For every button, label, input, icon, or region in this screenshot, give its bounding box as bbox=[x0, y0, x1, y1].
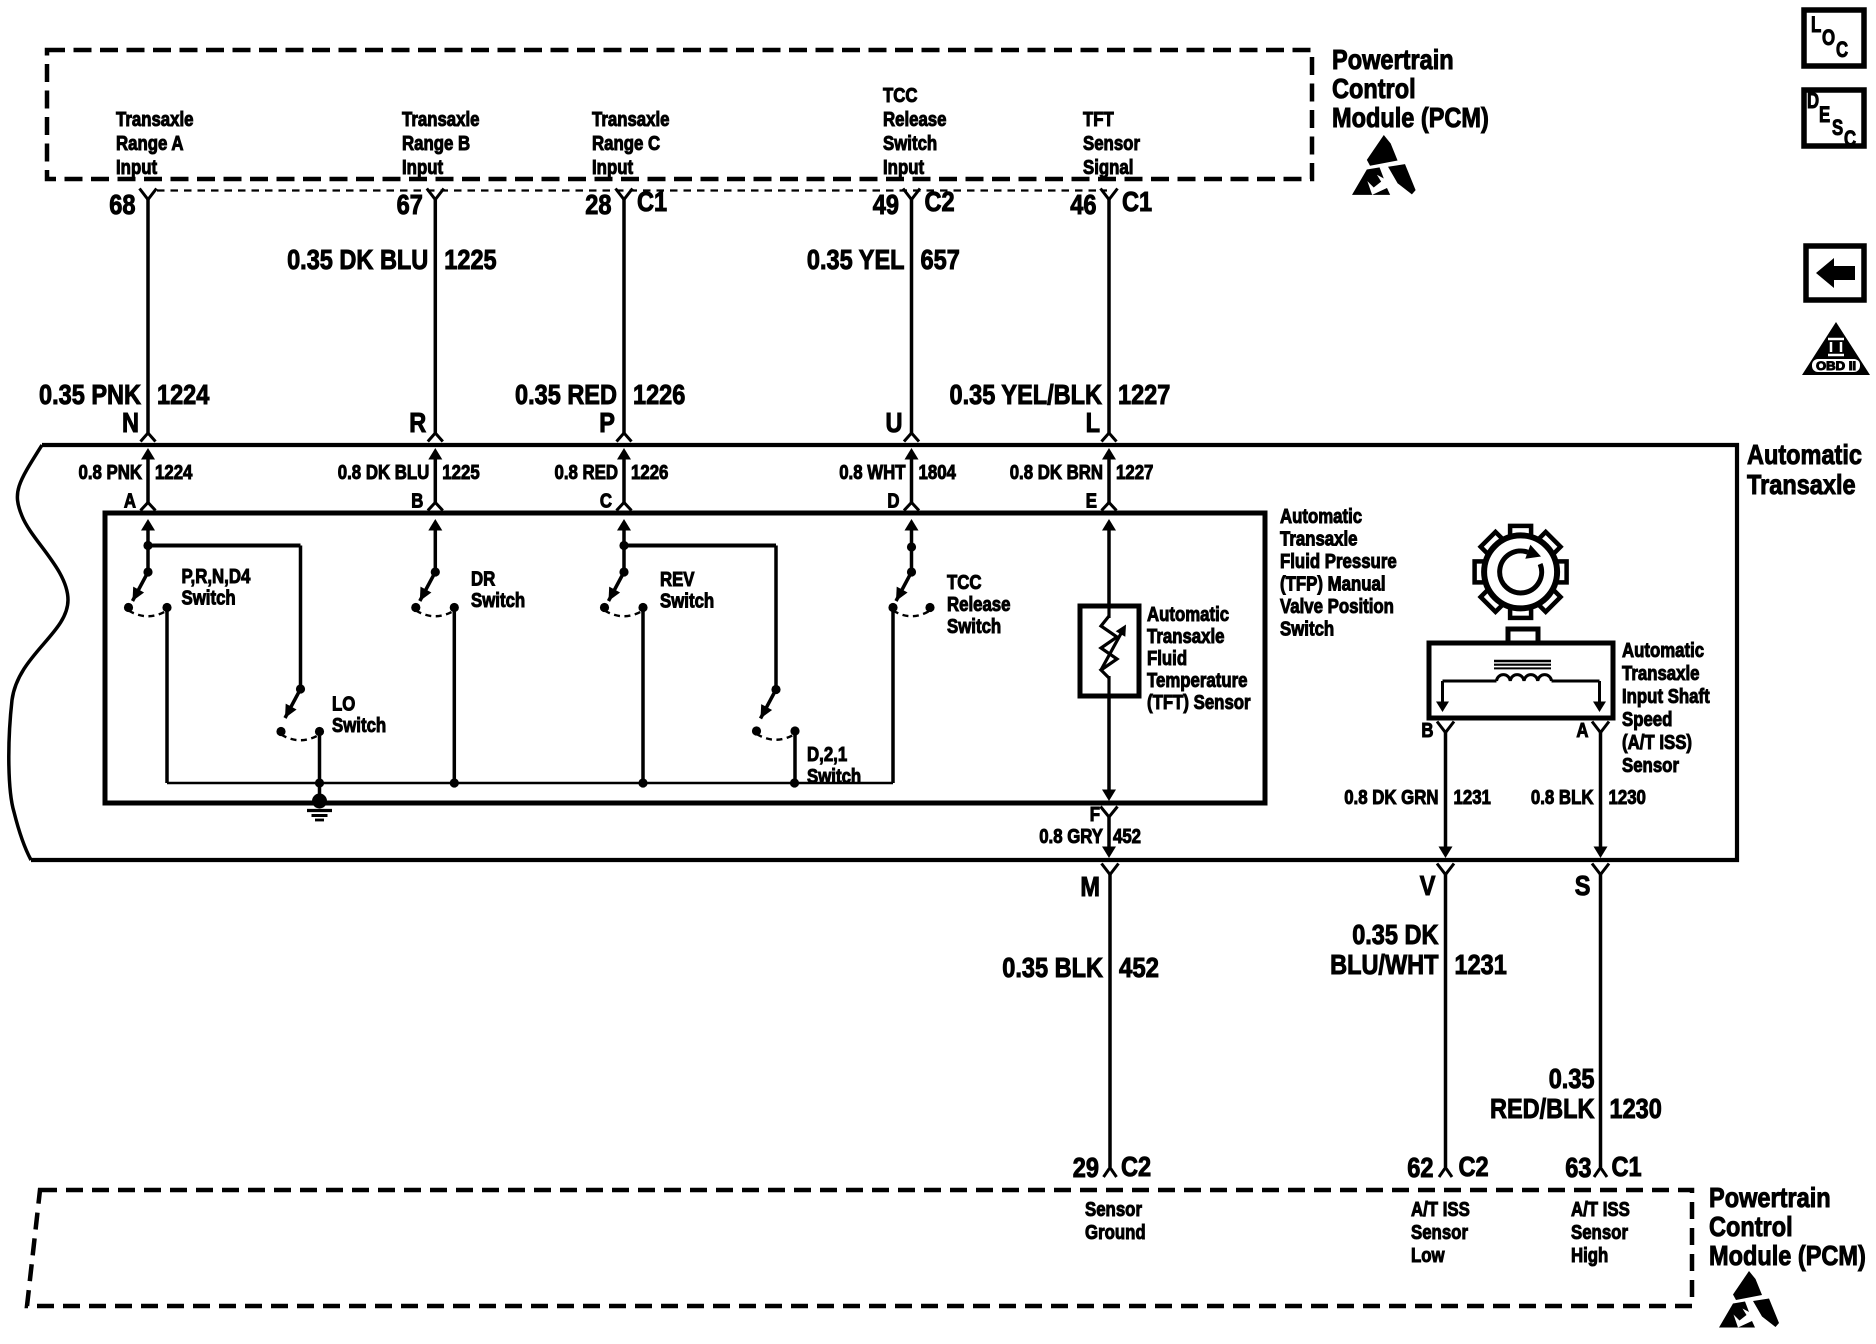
wire switch-common bus bbox=[167, 778, 893, 787]
label Transaxle Range C Input bbox=[592, 109, 670, 179]
svg-text:1224: 1224 bbox=[155, 462, 193, 484]
svg-text:Module (PCM): Module (PCM) bbox=[1332, 102, 1489, 133]
svg-text:C1: C1 bbox=[1612, 1151, 1642, 1182]
svg-text:(TFT) Sensor: (TFT) Sensor bbox=[1147, 692, 1251, 714]
svg-text:(A/T ISS): (A/T ISS) bbox=[1622, 732, 1692, 754]
svg-text:Ground: Ground bbox=[1085, 1222, 1146, 1244]
svg-text:28: 28 bbox=[585, 189, 611, 220]
svg-text:A: A bbox=[1576, 720, 1588, 742]
svg-text:Input: Input bbox=[402, 157, 443, 179]
svg-text:R: R bbox=[409, 407, 426, 438]
svg-text:TFT: TFT bbox=[1083, 109, 1114, 131]
wire 1231 0.35 DK BLU/WHT terminal-V to pin 62 bbox=[1330, 864, 1507, 1184]
svg-text:E: E bbox=[1819, 102, 1830, 127]
label A/T ISS Sensor High bbox=[1571, 1199, 1630, 1267]
svg-text:0.35: 0.35 bbox=[1549, 1063, 1595, 1094]
wire 1224 0.35 PNK pin-to-terminal-N bbox=[39, 200, 210, 442]
svg-text:Sensor: Sensor bbox=[1411, 1222, 1468, 1244]
svg-text:Sensor: Sensor bbox=[1083, 133, 1140, 155]
svg-text:Low: Low bbox=[1411, 1245, 1445, 1267]
PCM connector C1/C2 dashed line bbox=[157, 189, 1107, 191]
svg-text:1231: 1231 bbox=[1455, 949, 1507, 980]
wire 657 0.35 YEL pin-to-terminal-U bbox=[807, 200, 960, 442]
svg-text:A/T ISS: A/T ISS bbox=[1411, 1199, 1470, 1221]
svg-text:Input: Input bbox=[592, 157, 633, 179]
label Powertrain Control Module (PCM) top bbox=[1332, 44, 1489, 133]
svg-text:Sensor: Sensor bbox=[1085, 1199, 1142, 1221]
label Powertrain Control Module (PCM) bottom bbox=[1709, 1182, 1866, 1271]
svg-text:Release: Release bbox=[947, 594, 1011, 616]
ESD warning symbol (bottom PCM) bbox=[1719, 1271, 1779, 1328]
icon back-arrow box bbox=[1806, 246, 1864, 300]
icon DESC box bbox=[1804, 88, 1864, 151]
svg-text:LO: LO bbox=[332, 694, 355, 716]
svg-text:V: V bbox=[1420, 870, 1436, 901]
svg-text:A: A bbox=[124, 491, 136, 513]
switch DR (terminal B) bbox=[411, 519, 525, 783]
svg-text:M: M bbox=[1080, 871, 1100, 902]
wire 452 0.8 GRY terminal-F bbox=[1039, 696, 1141, 858]
svg-text:Automatic: Automatic bbox=[1280, 506, 1362, 528]
svg-text:0.8 BLK: 0.8 BLK bbox=[1531, 787, 1594, 809]
svg-text:RED/BLK: RED/BLK bbox=[1490, 1093, 1595, 1124]
svg-text:B: B bbox=[411, 491, 423, 513]
svg-text:P: P bbox=[599, 407, 615, 438]
svg-text:67: 67 bbox=[397, 189, 423, 220]
label TFT Sensor Signal bbox=[1083, 109, 1140, 179]
wire 1231 0.8 DK GRN ISS-B bbox=[1344, 720, 1491, 858]
pin 68 (PCM top) bbox=[109, 189, 156, 221]
svg-text:Switch: Switch bbox=[332, 715, 386, 737]
svg-text:C: C bbox=[1844, 126, 1856, 151]
svg-text:F: F bbox=[1090, 804, 1100, 826]
svg-text:Range A: Range A bbox=[116, 133, 184, 155]
svg-text:Input: Input bbox=[116, 157, 157, 179]
wire 1224 0.8 PNK terminal-A bbox=[79, 448, 194, 513]
label Automatic Transaxle Fluid Pressure (TFP) Manual Valve Position Switch bbox=[1280, 506, 1397, 641]
wire terminal-E to TFT sensor bbox=[1102, 519, 1116, 606]
svg-text:63: 63 bbox=[1565, 1152, 1591, 1183]
icon OBD II triangle bbox=[1802, 322, 1870, 375]
svg-text:1226: 1226 bbox=[633, 379, 685, 410]
svg-text:C: C bbox=[600, 491, 612, 513]
svg-text:Signal: Signal bbox=[1083, 157, 1133, 179]
svg-text:Sensor: Sensor bbox=[1622, 755, 1679, 777]
svg-text:0.8 RED: 0.8 RED bbox=[555, 462, 619, 484]
svg-text:C1: C1 bbox=[1122, 186, 1152, 217]
svg-text:OBD II: OBD II bbox=[1816, 359, 1856, 373]
svg-text:C2: C2 bbox=[925, 186, 955, 217]
label Automatic Transaxle bbox=[1747, 439, 1862, 500]
svg-text:68: 68 bbox=[109, 189, 135, 220]
svg-text:Switch: Switch bbox=[947, 616, 1001, 638]
svg-text:C2: C2 bbox=[1459, 1151, 1489, 1182]
TFT sensor (thermistor) bbox=[1080, 606, 1139, 696]
svg-text:Switch: Switch bbox=[471, 590, 525, 612]
wire link C-to-D21 bbox=[624, 546, 776, 690]
svg-text:Powertrain: Powertrain bbox=[1332, 44, 1454, 75]
svg-text:1225: 1225 bbox=[442, 462, 479, 484]
svg-text:Transaxle: Transaxle bbox=[402, 109, 480, 131]
svg-text:N: N bbox=[122, 407, 139, 438]
svg-text:49: 49 bbox=[873, 189, 899, 220]
svg-text:Module (PCM): Module (PCM) bbox=[1709, 1240, 1866, 1271]
svg-text:Automatic: Automatic bbox=[1622, 640, 1704, 662]
svg-text:Switch: Switch bbox=[883, 133, 937, 155]
svg-text:Switch: Switch bbox=[1280, 619, 1334, 641]
wire 1804 0.8 WHT terminal-D bbox=[839, 448, 956, 513]
TFP manual valve position switch box bbox=[105, 513, 1265, 803]
svg-text:L: L bbox=[1811, 12, 1821, 37]
svg-text:Control: Control bbox=[1709, 1211, 1793, 1242]
svg-text:29: 29 bbox=[1073, 1152, 1099, 1183]
svg-text:C: C bbox=[1836, 37, 1848, 62]
wire 452 0.35 BLK terminal-M to pin 29 bbox=[1002, 864, 1159, 1184]
switch REV (terminal C) bbox=[600, 519, 714, 783]
svg-text:Control: Control bbox=[1332, 73, 1416, 104]
svg-text:657: 657 bbox=[921, 244, 960, 275]
svg-text:Temperature: Temperature bbox=[1147, 670, 1248, 692]
svg-text:1227: 1227 bbox=[1116, 462, 1153, 484]
svg-text:TCC: TCC bbox=[883, 85, 918, 107]
label Automatic Transaxle Input Shaft Speed (A/T ISS) Sensor bbox=[1622, 640, 1710, 777]
svg-text:0.35 PNK: 0.35 PNK bbox=[39, 379, 141, 410]
svg-text:DR: DR bbox=[471, 569, 496, 591]
svg-text:O: O bbox=[1822, 25, 1835, 50]
wire link A-to-LO bbox=[148, 546, 301, 690]
svg-text:0.8 PNK: 0.8 PNK bbox=[79, 462, 143, 484]
svg-text:Input Shaft: Input Shaft bbox=[1622, 686, 1710, 708]
svg-text:1225: 1225 bbox=[444, 244, 496, 275]
svg-text:Switch: Switch bbox=[660, 591, 714, 613]
wire 1227 0.8 DK BRN terminal-E bbox=[1010, 448, 1154, 513]
svg-text:TCC: TCC bbox=[947, 572, 982, 594]
svg-text:Automatic: Automatic bbox=[1747, 439, 1862, 470]
svg-text:0.35 RED: 0.35 RED bbox=[515, 379, 617, 410]
svg-text:62: 62 bbox=[1407, 1152, 1433, 1183]
wire 1225 0.8 DK BLU terminal-B bbox=[338, 448, 480, 513]
svg-text:REV: REV bbox=[660, 569, 695, 591]
pin 46 C1 (PCM top) bbox=[1070, 186, 1152, 220]
svg-text:Transaxle: Transaxle bbox=[592, 109, 670, 131]
svg-text:Transaxle: Transaxle bbox=[1747, 469, 1856, 500]
svg-text:0.35 YEL: 0.35 YEL bbox=[807, 244, 905, 275]
svg-text:Automatic: Automatic bbox=[1147, 604, 1229, 626]
label Sensor Ground bbox=[1085, 1199, 1146, 1244]
svg-text:0.35 YEL/BLK: 0.35 YEL/BLK bbox=[950, 379, 1103, 410]
svg-text:0.8 DK BLU: 0.8 DK BLU bbox=[338, 462, 430, 484]
svg-text:S: S bbox=[1832, 115, 1843, 140]
icon LOC box bbox=[1804, 10, 1864, 66]
PCM connector box (bottom) bbox=[27, 1190, 1692, 1306]
PCM connector box (top) bbox=[47, 50, 1312, 179]
switch LO bbox=[276, 684, 386, 783]
wire 1226 0.35 RED pin-to-terminal-P bbox=[515, 200, 685, 442]
svg-text:High: High bbox=[1571, 1245, 1608, 1267]
wire 1227 0.35 YEL/BLK pin-to-terminal-L bbox=[950, 200, 1171, 442]
svg-text:Sensor: Sensor bbox=[1571, 1222, 1628, 1244]
svg-text:452: 452 bbox=[1119, 952, 1159, 983]
svg-text:1230: 1230 bbox=[1610, 1093, 1662, 1124]
svg-text:1224: 1224 bbox=[157, 379, 210, 410]
pin 67 (PCM top) bbox=[397, 189, 444, 221]
Automatic Transaxle box outline bbox=[9, 445, 1737, 860]
svg-text:P,R,N,D4: P,R,N,D4 bbox=[182, 566, 252, 588]
ESD warning symbol (top PCM) bbox=[1352, 135, 1416, 195]
label Automatic Transaxle Fluid Temperature (TFT) Sensor bbox=[1147, 604, 1251, 714]
svg-text:E: E bbox=[1086, 491, 1097, 513]
svg-text:0.8 DK GRN: 0.8 DK GRN bbox=[1344, 787, 1438, 809]
svg-text:0.35 BLK: 0.35 BLK bbox=[1002, 952, 1103, 983]
svg-text:Range C: Range C bbox=[592, 133, 660, 155]
svg-text:Powertrain: Powertrain bbox=[1709, 1182, 1831, 1213]
label Transaxle Range A Input bbox=[116, 109, 194, 179]
wire 1230 0.8 BLK ISS-A bbox=[1531, 720, 1646, 858]
svg-text:A/T ISS: A/T ISS bbox=[1571, 1199, 1630, 1221]
svg-text:Transaxle: Transaxle bbox=[1622, 663, 1700, 685]
svg-text:46: 46 bbox=[1070, 189, 1096, 220]
svg-text:0.8 GRY: 0.8 GRY bbox=[1039, 826, 1103, 848]
svg-text:Fluid Pressure: Fluid Pressure bbox=[1280, 551, 1397, 573]
svg-text:Speed: Speed bbox=[1622, 709, 1672, 731]
svg-text:452: 452 bbox=[1113, 826, 1141, 848]
svg-text:D: D bbox=[1807, 88, 1819, 113]
switch D,2,1 bbox=[752, 685, 861, 788]
svg-text:0.8 WHT: 0.8 WHT bbox=[839, 462, 905, 484]
label TCC Release Switch Input bbox=[883, 85, 947, 179]
svg-text:1804: 1804 bbox=[919, 462, 957, 484]
svg-text:Transaxle: Transaxle bbox=[1280, 529, 1358, 551]
gear icon (input shaft) bbox=[1475, 526, 1567, 618]
svg-text:Transaxle: Transaxle bbox=[116, 109, 194, 131]
svg-text:Fluid: Fluid bbox=[1147, 648, 1187, 670]
wire 1225 0.35 DK BLU pin-to-terminal-R bbox=[287, 200, 496, 442]
pin 49 C2 (PCM top) bbox=[873, 186, 955, 220]
svg-text:0.35 DK: 0.35 DK bbox=[1352, 919, 1438, 950]
svg-text:D: D bbox=[887, 491, 899, 513]
svg-text:D,2,1: D,2,1 bbox=[807, 744, 847, 766]
svg-text:C1: C1 bbox=[637, 186, 667, 217]
svg-text:Transaxle: Transaxle bbox=[1147, 626, 1225, 648]
switch TCC Release (terminal D) bbox=[888, 519, 1010, 783]
svg-text:1226: 1226 bbox=[631, 462, 668, 484]
svg-text:Range B: Range B bbox=[402, 133, 470, 155]
svg-text:Valve Position: Valve Position bbox=[1280, 596, 1394, 618]
svg-text:U: U bbox=[886, 407, 903, 438]
svg-text:1227: 1227 bbox=[1118, 379, 1170, 410]
svg-text:Input: Input bbox=[883, 157, 924, 179]
svg-text:Switch: Switch bbox=[182, 588, 236, 610]
svg-text:S: S bbox=[1575, 870, 1591, 901]
svg-text:(TFP) Manual: (TFP) Manual bbox=[1280, 574, 1386, 596]
svg-text:1231: 1231 bbox=[1454, 787, 1491, 809]
label A/T ISS Sensor Low bbox=[1411, 1199, 1470, 1267]
switch P,R,N,D4 (terminal A) bbox=[124, 519, 251, 783]
A/T ISS sensor (inductive pickup) bbox=[1429, 629, 1613, 718]
label Transaxle Range B Input bbox=[402, 109, 480, 179]
svg-text:L: L bbox=[1086, 407, 1100, 438]
pin 28 C1 (PCM top) bbox=[585, 186, 667, 220]
svg-text:B: B bbox=[1421, 720, 1433, 742]
svg-text:0.35 DK BLU: 0.35 DK BLU bbox=[287, 244, 428, 275]
wire 1230 0.35 RED/BLK terminal-S to pin 63 bbox=[1490, 864, 1662, 1184]
ground (TFP switch common) bbox=[307, 783, 332, 820]
svg-text:0.8 DK BRN: 0.8 DK BRN bbox=[1010, 462, 1103, 484]
svg-text:1230: 1230 bbox=[1609, 787, 1646, 809]
svg-text:Release: Release bbox=[883, 109, 947, 131]
svg-text:BLU/WHT: BLU/WHT bbox=[1330, 949, 1438, 980]
wire 1226 0.8 RED terminal-C bbox=[555, 448, 669, 513]
svg-text:Switch: Switch bbox=[807, 766, 861, 788]
svg-text:C2: C2 bbox=[1121, 1151, 1151, 1182]
